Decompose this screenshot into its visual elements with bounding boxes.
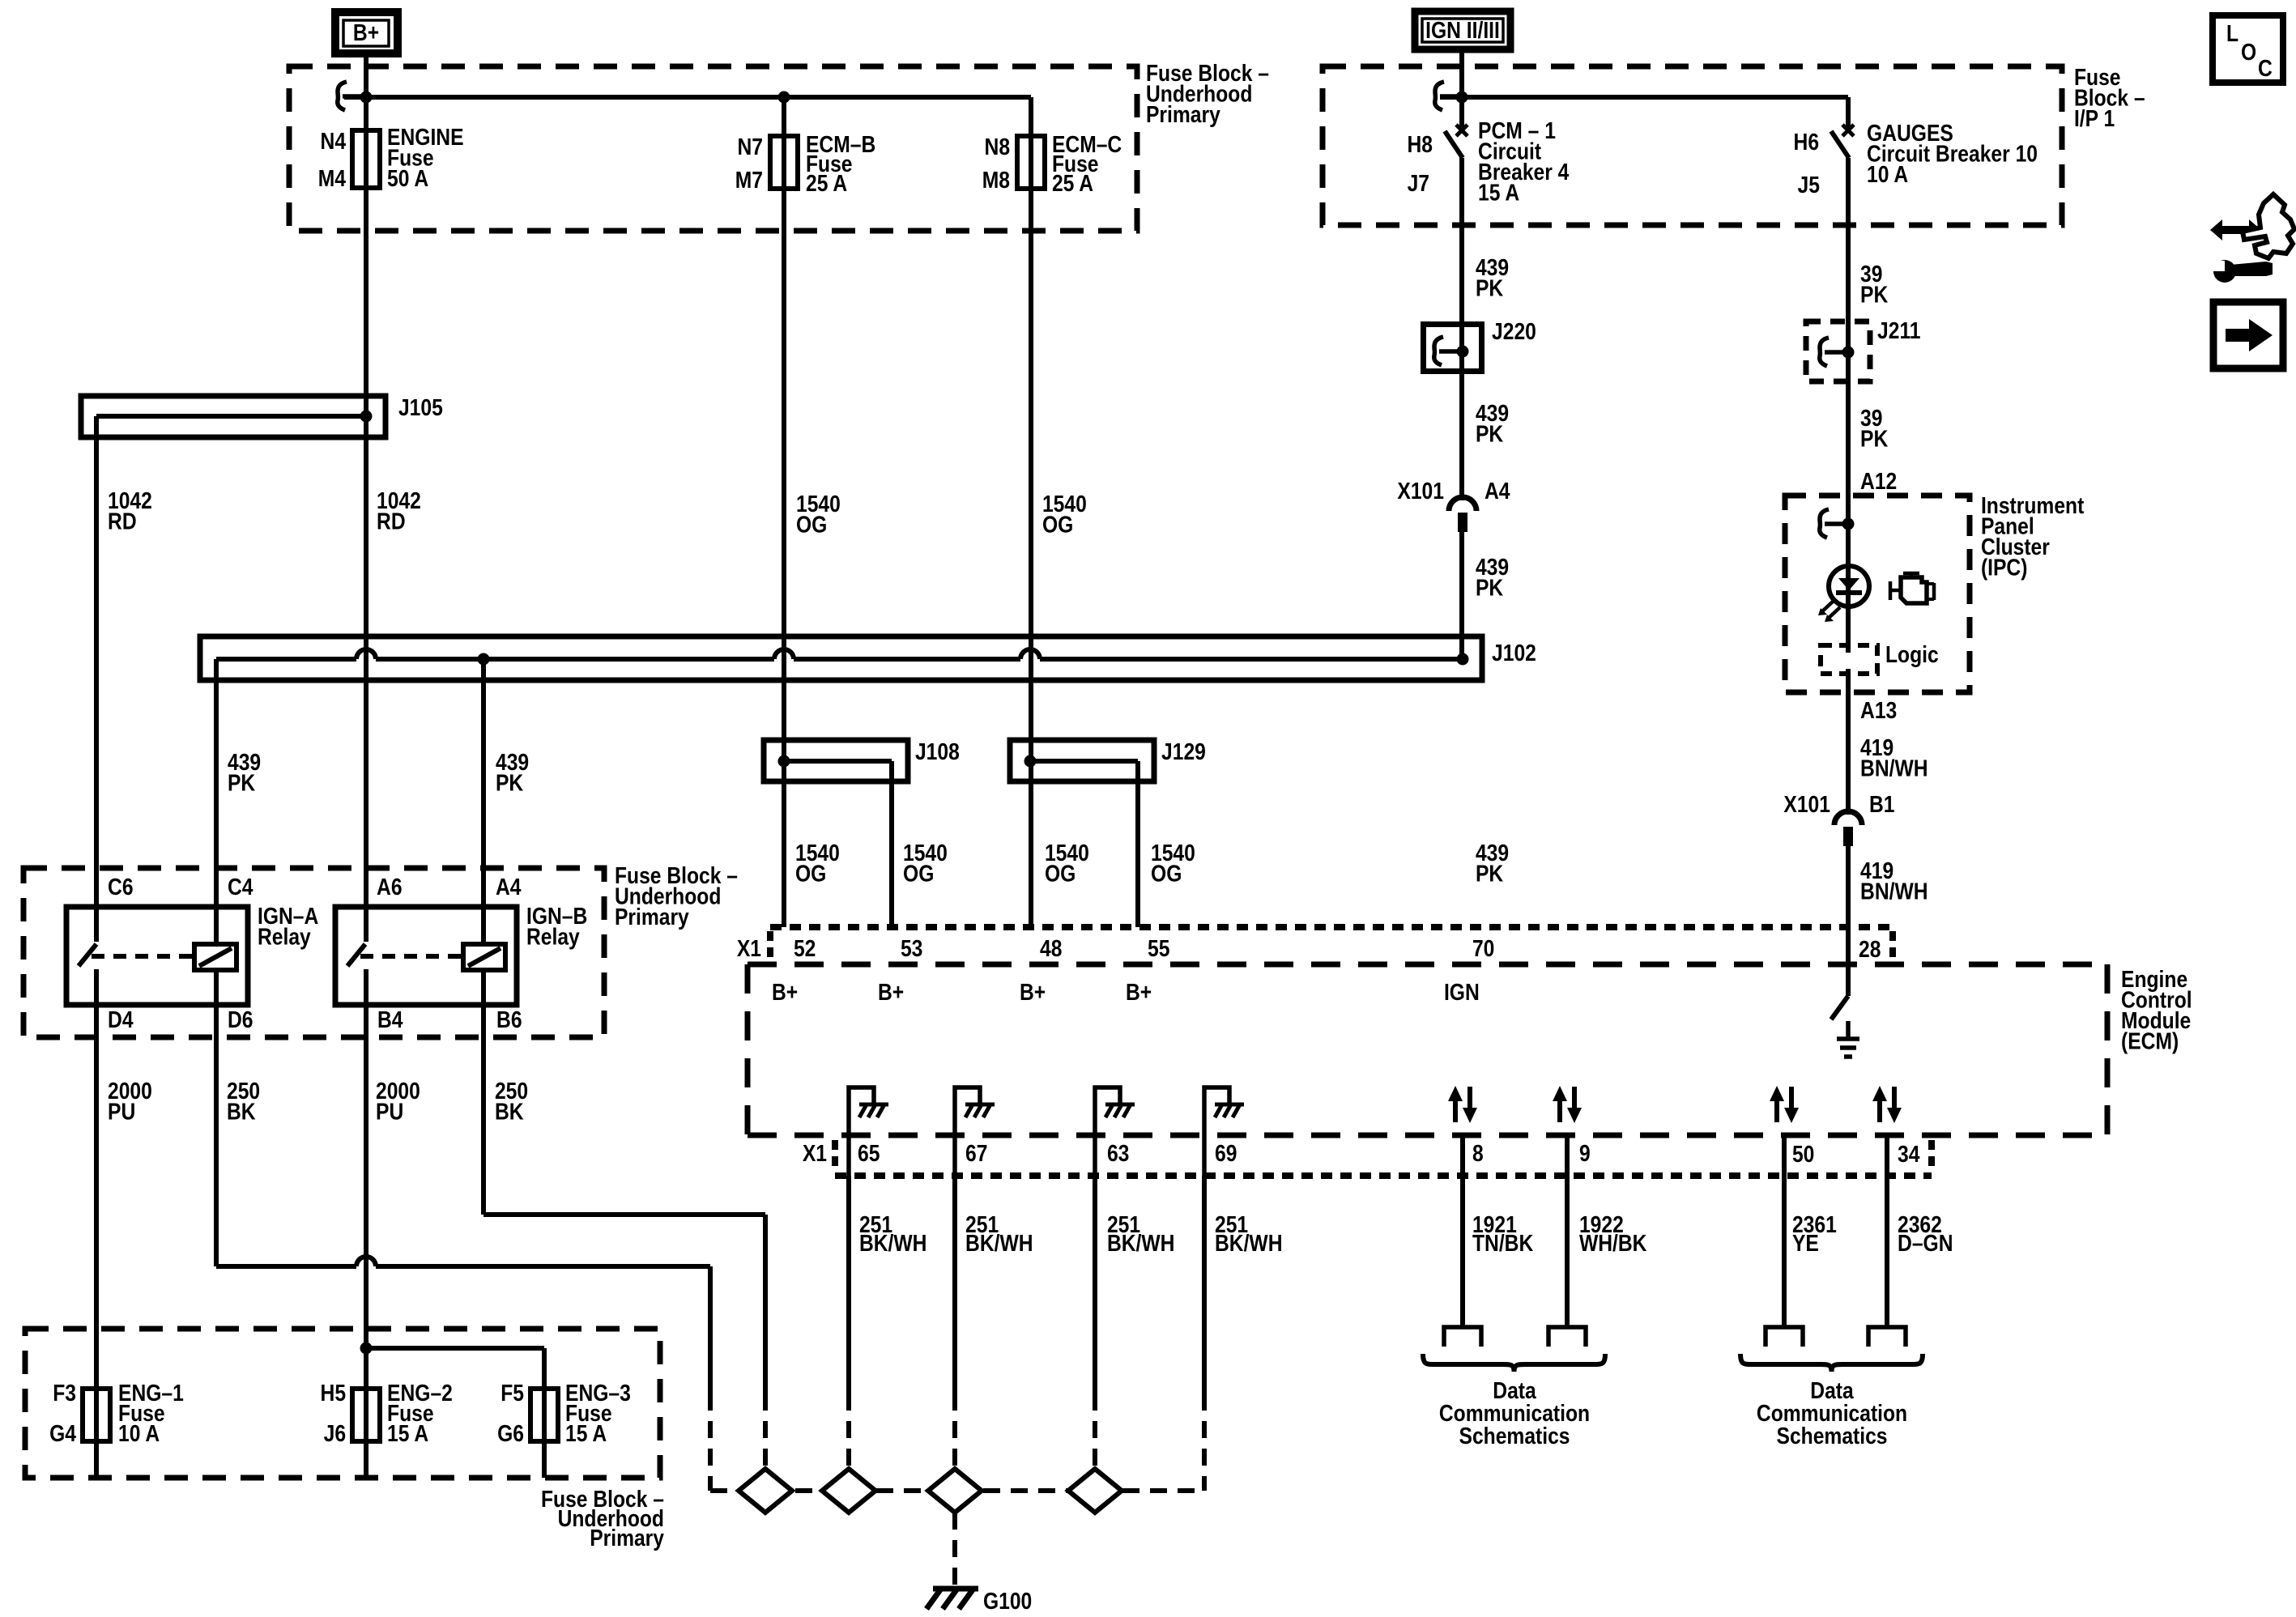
label fuse block underhood primary (top) (1146, 60, 1269, 127)
svg-text:8: 8 (1472, 1140, 1484, 1166)
svg-text:IGN II/III: IGN II/III (1425, 17, 1500, 43)
brace data communication left (1423, 1354, 1605, 1372)
label 1540 OG (X1-53) (903, 840, 948, 887)
svg-text:D6: D6 (228, 1006, 253, 1032)
hop D6 run over B4 wire (356, 1257, 376, 1266)
svg-text:M7: M7 (735, 167, 763, 193)
wire 439 PK to J102 (1459, 532, 1464, 659)
svg-text:WH/BK: WH/BK (1579, 1230, 1647, 1256)
svg-text:J220: J220 (1492, 318, 1536, 344)
fuse block underhood primary (top) dashed box (289, 66, 1137, 231)
wire 419 BN/WH to ECM pin 28 (1846, 846, 1851, 996)
label X1 row2 (803, 1140, 827, 1166)
svg-text:PK: PK (496, 770, 524, 796)
splice bar J129 (1010, 740, 1154, 781)
junction dot ECM-B branch (778, 91, 790, 104)
svg-text:B+: B+ (772, 979, 798, 1005)
label 439 PK (IGN-A coil feed) (228, 749, 261, 796)
fuse F5/G6 ENG-3 15A (530, 1389, 558, 1441)
svg-text:15 A: 15 A (387, 1420, 428, 1446)
label PCM-1 circuit breaker (1478, 117, 1569, 206)
svg-text:M4: M4 (318, 165, 346, 191)
connector J220 box (1424, 325, 1482, 372)
relay IGN-B pin labels (377, 874, 403, 900)
splice diamond S-pack 2 (822, 1469, 875, 1513)
svg-text:PK: PK (1476, 275, 1504, 301)
relay IGN-A (66, 907, 248, 1005)
svg-text:PK: PK (1476, 861, 1504, 887)
svg-text:H5: H5 (321, 1380, 347, 1406)
relay IGN-B (335, 907, 517, 1005)
wire J220 through (1459, 321, 1464, 500)
svg-text:(IPC): (IPC) (1981, 555, 2028, 581)
label A12 (1860, 468, 1897, 494)
svg-text:A4: A4 (496, 874, 522, 900)
svg-text:70: 70 (1472, 935, 1494, 961)
label fuse block underhood primary (bottom) (541, 1486, 664, 1551)
wire 251 BK/WH pin 65 (846, 1176, 851, 1394)
svg-text:YE: YE (1792, 1230, 1819, 1256)
wire IGN feed 1805 (1459, 49, 1464, 128)
svg-text:63: 63 (1107, 1140, 1129, 1166)
svg-text:J129: J129 (1161, 738, 1206, 764)
curl splice at B+ junction (338, 82, 365, 110)
svg-text:B4: B4 (377, 1006, 403, 1032)
splice bar J108 (764, 740, 908, 781)
ECM data arrows pin 8 (1448, 1086, 1477, 1123)
svg-text:BN/WH: BN/WH (1860, 755, 1928, 781)
ECM internal ground pigtail pin 65 (849, 1087, 888, 1176)
wire 2000 PU from D4 (94, 969, 99, 1478)
svg-text:J5: J5 (1798, 172, 1820, 198)
svg-text:Relay: Relay (258, 924, 311, 950)
wire 2362 D-GN pin 34 (1885, 1135, 1889, 1327)
fuse N4/M4 ENGINE 50A (352, 130, 380, 188)
net labels B+ / IGN inside ECM (772, 979, 798, 1005)
junction dot J211 (1842, 347, 1855, 359)
fuse block I/P 1 dashed box (1323, 66, 2062, 225)
fuse H5/J6 ENG-2 15A (352, 1389, 380, 1441)
svg-text:BK/WH: BK/WH (1215, 1230, 1283, 1256)
svg-text:RD: RD (377, 509, 406, 534)
svg-text:OG: OG (795, 861, 826, 887)
label 1540 OG (X1-52) (795, 840, 840, 887)
svg-text:L: L (2226, 20, 2238, 46)
svg-text:X101: X101 (1783, 791, 1830, 817)
svg-text:H8: H8 (1408, 131, 1433, 157)
svg-text:PK: PK (228, 770, 256, 796)
relay IGN-A pin labels (108, 874, 134, 900)
wire IGN bus to GAUGES (1440, 95, 1848, 100)
ECM internal ground pigtail pin 63 (1095, 1087, 1135, 1176)
curl splice at IGN junction (1435, 82, 1463, 110)
label 439 PK (above J220) (1476, 254, 1509, 301)
ECM internal switch to ground (pin 28) (1831, 996, 1859, 1057)
svg-text:D–GN: D–GN (1898, 1230, 1953, 1256)
svg-text:A12: A12 (1860, 468, 1897, 494)
svg-text:Schematics: Schematics (1777, 1423, 1888, 1449)
svg-text:67: 67 (965, 1140, 987, 1166)
svg-text:N7: N7 (737, 134, 763, 160)
label 39 PK (below J211) (1860, 405, 1889, 452)
svg-text:9: 9 (1579, 1140, 1591, 1166)
label 439 PK (above X1-70) (1476, 554, 1509, 601)
svg-text:PK: PK (1476, 421, 1504, 447)
splice bar J102 (200, 636, 1482, 680)
label A13 (1860, 697, 1897, 723)
svg-text:B+: B+ (353, 19, 379, 45)
pin numbers X1 row2 (858, 1140, 880, 1166)
fuse block underhood primary (relays) dashed box (23, 868, 604, 1037)
inline connector X101 B1 (1834, 811, 1862, 846)
svg-text:N8: N8 (985, 134, 1011, 160)
label engine control module (2121, 966, 2192, 1054)
label 1540 OG (X1-48) (1045, 840, 1089, 887)
label 439 PK (X1-70) (1476, 840, 1509, 887)
svg-text:Primary: Primary (1146, 101, 1220, 127)
svg-text:J211: J211 (1877, 317, 1920, 343)
svg-text:PK: PK (1860, 282, 1889, 308)
label J220 (1492, 318, 1536, 344)
wire J211 through to IPC (1846, 321, 1851, 496)
svg-text:G4: G4 (49, 1420, 76, 1446)
svg-text:OG: OG (1045, 861, 1076, 887)
wire J129 branch to X1-55 (1135, 761, 1140, 927)
fuse N8/M8 ECM-C 25A (1017, 136, 1045, 189)
ECM internal ground pigtail pin 67 (955, 1087, 995, 1176)
logic dashed box (1846, 607, 1851, 653)
svg-text:O: O (2241, 39, 2256, 65)
wire ECM-C drop (1029, 97, 1033, 927)
svg-text:B+: B+ (1020, 979, 1046, 1005)
wire 1921 TN/BK pin 8 (1460, 1135, 1465, 1327)
wire 250 BK from D6 (214, 968, 219, 1266)
svg-text:J7: J7 (1408, 170, 1429, 196)
label fuse block underhood primary (relays) (615, 862, 738, 930)
svg-text:A13: A13 (1860, 697, 1897, 723)
svg-text:OG: OG (1151, 861, 1182, 887)
svg-text:PU: PU (376, 1099, 403, 1125)
svg-text:M8: M8 (982, 167, 1010, 193)
wire 1922 WH/BK pin 9 (1565, 1135, 1570, 1327)
svg-text:F5: F5 (501, 1380, 524, 1406)
wire 439 PK to A4 coil (481, 659, 486, 943)
wire 1042 RD left branch (J105 to IGN-A relay C6) (94, 416, 99, 942)
svg-text:TN/BK: TN/BK (1472, 1230, 1534, 1256)
wire dashed drop to G100 (952, 1513, 957, 1587)
svg-text:34: 34 (1898, 1141, 1919, 1167)
label 1540 OG (X1-55) (1151, 840, 1195, 887)
label G100 (983, 1588, 1032, 1614)
wire 2000 PU from B4 (364, 969, 368, 1478)
svg-text:X101: X101 (1397, 478, 1444, 504)
fuse block underhood primary (bottom) dashed box (25, 1329, 660, 1478)
svg-text:J105: J105 (398, 394, 443, 420)
svg-text:48: 48 (1040, 935, 1062, 961)
wire ECM-B drop (782, 97, 786, 927)
svg-text:N4: N4 (321, 128, 347, 154)
label 439 PK (below J220) (1476, 400, 1509, 447)
fuse N7/M7 ECM-B 25A (770, 136, 798, 189)
svg-text:B1: B1 (1869, 791, 1895, 817)
label GAUGES circuit breaker (1867, 120, 2038, 187)
svg-text:D4: D4 (108, 1006, 134, 1032)
svg-text:B6: B6 (496, 1006, 522, 1032)
svg-text:I/P 1: I/P 1 (2074, 105, 2115, 131)
svg-text:69: 69 (1215, 1140, 1237, 1166)
svg-text:J108: J108 (915, 738, 960, 764)
label instrument panel cluster (1981, 492, 2084, 581)
wire 439 PK below H8 (1459, 158, 1464, 321)
svg-text:Schematics: Schematics (1459, 1423, 1570, 1449)
svg-text:G6: G6 (497, 1420, 524, 1446)
label fuse block I/P 1 (2074, 64, 2145, 131)
svg-text:BK/WH: BK/WH (965, 1230, 1033, 1256)
svg-text:G100: G100 (983, 1588, 1032, 1614)
label 1042 RD (left branch) (108, 487, 152, 534)
label 419 BN/WH (above X101 B1) (1860, 734, 1928, 781)
label J211 (1877, 317, 1920, 343)
svg-text:10 A: 10 A (1867, 161, 1908, 187)
junction dot J220 (1457, 346, 1469, 358)
svg-text:OG: OG (796, 512, 827, 538)
svg-text:C: C (2258, 55, 2273, 81)
svg-text:(ECM): (ECM) (2121, 1028, 2179, 1054)
label X1 row1 (737, 935, 761, 961)
wire 2361 YE pin 50 (1782, 1135, 1787, 1327)
svg-text:Relay: Relay (526, 924, 580, 950)
svg-text:C4: C4 (228, 874, 253, 900)
svg-text:65: 65 (858, 1140, 880, 1166)
svg-text:A4: A4 (1485, 478, 1510, 504)
svg-text:F3: F3 (53, 1380, 76, 1406)
junction dot ENG-2/ENG-3 branch (360, 1343, 373, 1355)
label 439 PK (IGN-B coil feed) (496, 749, 529, 796)
splice diamond S-pack 3 (928, 1469, 982, 1513)
wire branch to ENG-3 (366, 1346, 544, 1351)
svg-text:C6: C6 (108, 874, 134, 900)
ECM internal ground pigtail pin 69 (1204, 1087, 1244, 1176)
wire 250 BK from B6 (481, 968, 486, 1215)
label 1042 RD (main) (377, 487, 421, 534)
svg-text:X1: X1 (803, 1140, 827, 1166)
wire B6 dashed drop to diamond splice (763, 1394, 768, 1469)
splice diamond S-pack 4 (1068, 1469, 1122, 1513)
curl splice inside J211 (1820, 338, 1847, 366)
svg-text:Logic: Logic (1885, 641, 1939, 667)
svg-text:Primary: Primary (615, 904, 689, 930)
svg-text:10 A: 10 A (118, 1420, 160, 1446)
ECM data arrows pin 50 (1770, 1086, 1799, 1123)
svg-text:X1: X1 (737, 935, 761, 961)
wire IPC internal top (1846, 496, 1851, 567)
svg-text:55: 55 (1148, 935, 1169, 961)
terminal pin 8 (1444, 1327, 1481, 1347)
svg-text:OG: OG (903, 861, 934, 887)
svg-text:PK: PK (1860, 426, 1889, 452)
power symbol B+ (335, 12, 398, 53)
svg-text:25 A: 25 A (806, 170, 847, 196)
splice bar J105 (81, 396, 386, 437)
svg-text:A6: A6 (377, 874, 403, 900)
label 1540 OG (ECM-C above J129) (1042, 491, 1087, 538)
svg-text:15 A: 15 A (1478, 180, 1519, 206)
pin numbers X1 row1 (794, 935, 816, 961)
instrument panel cluster dashed box (1785, 496, 1970, 692)
terminal pin 9 (1548, 1327, 1586, 1347)
terminal pin 34 (1868, 1327, 1906, 1347)
svg-text:BK/WH: BK/WH (1107, 1230, 1175, 1256)
splice bus dashed (710, 1488, 740, 1493)
svg-text:B+: B+ (1126, 979, 1152, 1005)
icon arrow box (2213, 302, 2283, 368)
engine control module dashed box (748, 962, 2107, 968)
inline connector X101 A4 (1449, 497, 1476, 532)
icon hand with wrench (2210, 194, 2294, 283)
wire 251 BK/WH pin 67 (952, 1176, 957, 1394)
label 1540 OG (ECM-B above J108) (796, 491, 841, 538)
curl splice inside J220 (1434, 337, 1462, 365)
indicator LED circle (1818, 566, 1869, 622)
wire 439 PK to C4 (214, 659, 219, 943)
curl splice inside IPC (1820, 509, 1847, 538)
svg-text:28: 28 (1859, 936, 1881, 962)
ground G100 (926, 1589, 978, 1609)
splice diamond S-pack 1 (739, 1469, 792, 1513)
ECM data arrows pin 9 (1553, 1086, 1582, 1123)
check engine MIL icon (1890, 573, 1934, 603)
wire D6 dashed drop to splice bus (708, 1394, 713, 1491)
wire 1042 RD main (J105 to IGN-B relay A6) (364, 437, 368, 942)
svg-text:50 A: 50 A (387, 165, 428, 191)
svg-text:J102: J102 (1492, 640, 1536, 666)
connector X1 row2 face line (835, 1172, 1932, 1179)
junction dot IGN (1456, 91, 1468, 104)
svg-text:53: 53 (901, 935, 922, 961)
svg-text:BK: BK (227, 1099, 256, 1125)
wire B+ feed 452 (364, 53, 368, 396)
svg-text:PU: PU (108, 1099, 135, 1125)
junction dot B+ (360, 91, 373, 104)
LOC legend box (2213, 15, 2283, 83)
svg-text:BK: BK (495, 1099, 524, 1125)
svg-text:50: 50 (1792, 1141, 1814, 1167)
terminal pin 50 (1766, 1327, 1803, 1347)
label data communication schematics left (1439, 1377, 1590, 1449)
ECM data arrows pin 34 (1872, 1086, 1902, 1123)
svg-text:B+: B+ (878, 979, 904, 1005)
wire 39 PK below H6 (1846, 158, 1851, 324)
wire 251 BK/WH pin 69 (1202, 1176, 1207, 1394)
svg-text:J6: J6 (324, 1420, 346, 1446)
connector X1 row1 face line (770, 924, 1893, 930)
svg-text:BK/WH: BK/WH (859, 1230, 927, 1256)
svg-text:OG: OG (1042, 512, 1073, 538)
junction dot IPC splice (1842, 518, 1855, 530)
svg-text:15 A: 15 A (565, 1420, 607, 1446)
wire B+ bus (344, 95, 1031, 100)
label 39 PK (above J211) (1860, 261, 1889, 308)
circuit breaker H8/J7 PCM-1 (1445, 125, 1467, 158)
power symbol IGN II/III (1415, 11, 1510, 49)
svg-text:BN/WH: BN/WH (1860, 879, 1928, 904)
svg-text:RD: RD (108, 509, 137, 534)
label data communication schematics right (1757, 1377, 1907, 1449)
wire J108 branch to X1-53 (889, 761, 894, 927)
brace data communication right (1740, 1354, 1923, 1372)
svg-text:H6: H6 (1794, 129, 1820, 155)
svg-text:Primary: Primary (590, 1525, 664, 1551)
svg-text:52: 52 (794, 935, 816, 961)
svg-text:PK: PK (1476, 575, 1504, 601)
fuse F3/G4 ENG-1 10A (83, 1389, 110, 1441)
svg-text:25 A: 25 A (1052, 170, 1093, 196)
label 419 BN/WH (above X1-28) (1860, 857, 1928, 904)
svg-text:IGN: IGN (1444, 979, 1480, 1005)
wire IPC internal bottom (1846, 669, 1851, 815)
circuit breaker H6/J5 GAUGES (1831, 125, 1854, 158)
connector J211 dashed box (1806, 321, 1870, 381)
wire 251 BK/WH pin 63 (1093, 1176, 1097, 1394)
